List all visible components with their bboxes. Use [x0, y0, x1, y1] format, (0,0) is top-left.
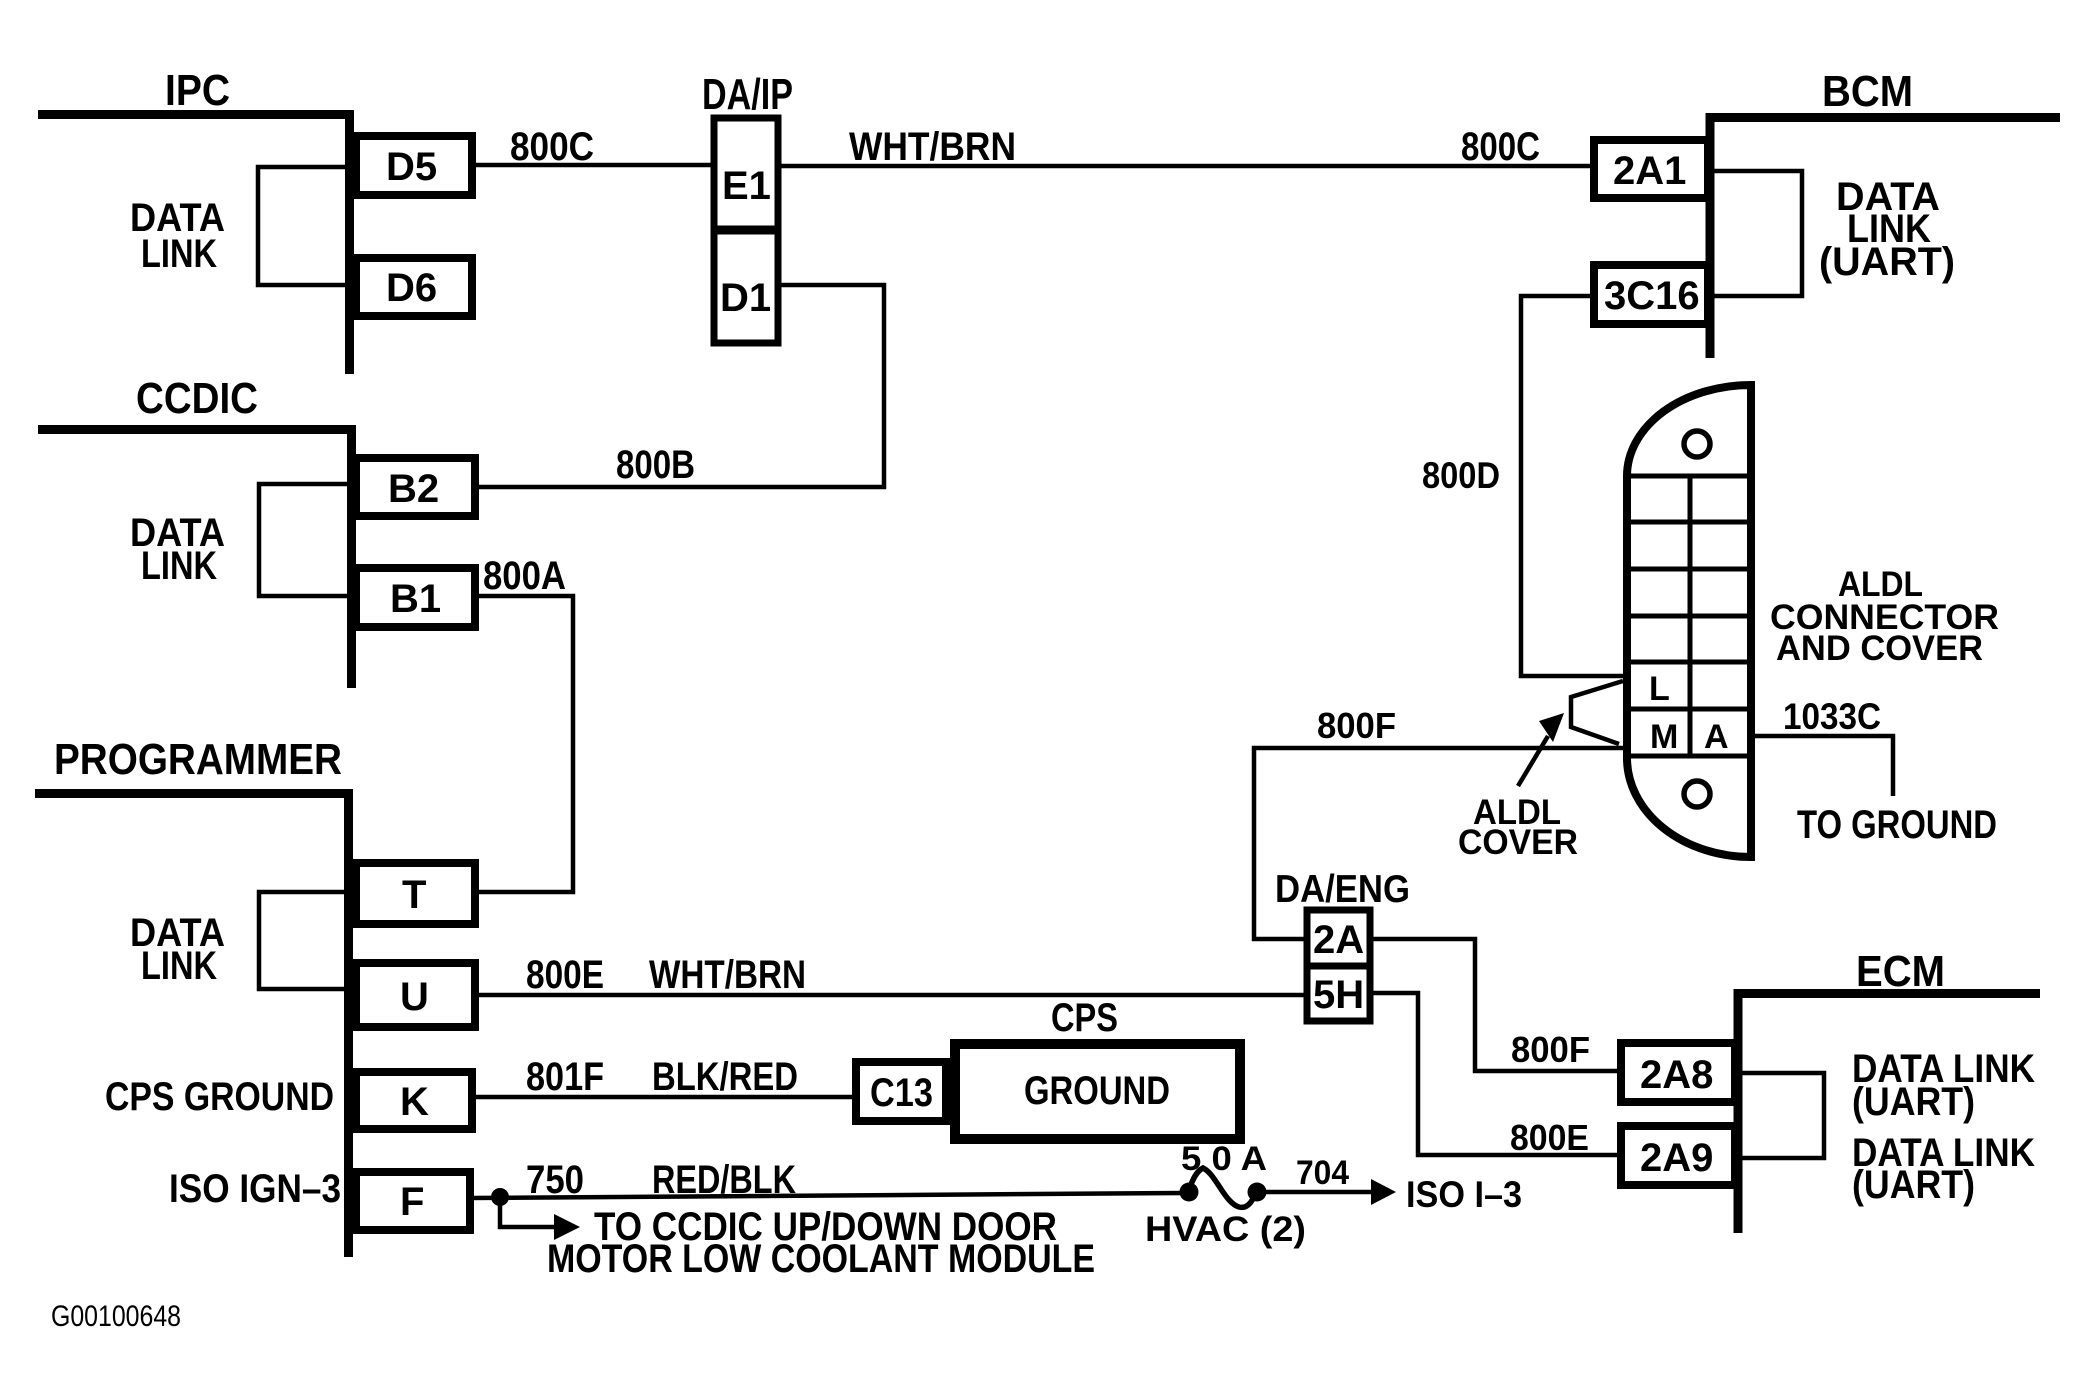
svg-text:CPS: CPS [1051, 996, 1118, 1040]
bracket IPC data link [258, 167, 349, 285]
label DATA LINK (IPC) [130, 196, 225, 276]
svg-text:800F: 800F [1317, 705, 1396, 746]
svg-text:750: 750 [526, 1158, 584, 1202]
ALDL pin hole bottom [1684, 781, 1710, 807]
svg-text:DA/ENG: DA/ENG [1275, 868, 1410, 911]
svg-text:T: T [402, 873, 426, 917]
arrow to ALDL cover [1518, 713, 1564, 786]
label WHT/BRN top [849, 125, 1016, 169]
label 800C left [510, 125, 594, 169]
terminal B2 [356, 458, 475, 516]
ALDL connector outline [1627, 385, 1751, 857]
wire 801F K to C13 [472, 1095, 852, 1100]
label TO GROUND [1797, 803, 1997, 847]
module ECM outline [1738, 989, 2040, 1233]
terminal K [356, 1072, 472, 1129]
svg-text:800C: 800C [1461, 125, 1540, 169]
label DATA LINK (PROGRAMMER) [130, 911, 225, 988]
module PROGRAMMER label [54, 735, 342, 784]
label 1033C [1783, 696, 1881, 737]
label 800D [1422, 455, 1500, 496]
svg-text:800D: 800D [1422, 455, 1500, 496]
svg-text:C13: C13 [870, 1071, 933, 1115]
svg-text:704: 704 [1296, 1154, 1349, 1192]
label TO CCDIC UP/DOWN DOOR MOTOR LOW COOLANT MODULE [547, 1205, 1095, 1281]
svg-text:LINK: LINK [141, 944, 217, 988]
svg-text:K: K [400, 1080, 429, 1124]
label ISO I-3 [1406, 1174, 1522, 1215]
svg-text:D5: D5 [386, 145, 437, 189]
terminal B1 [356, 568, 475, 627]
svg-text:CPS GROUND: CPS GROUND [105, 1075, 334, 1119]
module IPC outline [38, 110, 350, 374]
connector DA/IP label [702, 70, 793, 119]
svg-text:2A1: 2A1 [1613, 149, 1686, 193]
terminal F [356, 1172, 470, 1230]
svg-text:MOTOR LOW COOLANT MODULE: MOTOR LOW COOLANT MODULE [547, 1237, 1095, 1281]
svg-text:E1: E1 [722, 164, 771, 208]
label 5.0 A [1181, 1140, 1267, 1178]
ALDL pin hole top [1684, 431, 1710, 457]
terminal D5 [356, 136, 472, 195]
svg-text:F: F [400, 1180, 424, 1224]
svg-text:5H: 5H [1313, 973, 1364, 1017]
svg-text:PROGRAMMER: PROGRAMMER [54, 735, 342, 784]
label DATA LINK (CCDIC) [130, 511, 225, 588]
svg-text:B2: B2 [388, 467, 439, 511]
ALDL pin L [1649, 670, 1670, 708]
module ECM label [1856, 947, 1945, 996]
svg-text:(UART): (UART) [1819, 240, 1955, 284]
svg-text:800E: 800E [526, 953, 604, 997]
bracket BCM data link [1711, 171, 1802, 296]
label 800A [483, 554, 566, 598]
wire 800A B1 to T [475, 596, 573, 892]
terminal C13 [856, 1062, 946, 1121]
label DATA LINK (UART) ECM 2 [1852, 1131, 2035, 1207]
svg-text:HVAC (2): HVAC (2) [1145, 1210, 1306, 1249]
wire 800F ALDL M to 2A [1254, 748, 1627, 939]
label 800C right [1461, 125, 1540, 169]
svg-text:LINK: LINK [141, 544, 217, 588]
terminal 2A1 [1594, 140, 1708, 198]
label 800F upper [1317, 705, 1396, 746]
svg-text:(UART): (UART) [1852, 1163, 1975, 1207]
label HVAC (2) [1145, 1210, 1306, 1249]
terminal 2A [1307, 910, 1370, 966]
label 800F lower [1511, 1029, 1590, 1070]
label 704 [1296, 1154, 1349, 1192]
svg-text:G00100648: G00100648 [51, 1300, 181, 1333]
svg-text:2A9: 2A9 [1640, 1136, 1713, 1180]
svg-text:ISO IGN–3: ISO IGN–3 [169, 1167, 341, 1211]
svg-text:WHT/BRN: WHT/BRN [649, 953, 806, 997]
svg-text:A: A [1704, 718, 1729, 756]
svg-text:800C: 800C [510, 125, 594, 169]
terminal 2A9 [1621, 1126, 1735, 1185]
wire 750 F to fuse [470, 1193, 1185, 1198]
module CCDIC outline [38, 425, 352, 688]
svg-text:M: M [1650, 718, 1678, 756]
svg-text:AND COVER: AND COVER [1776, 629, 1983, 668]
label 801F BLK/RED [526, 1055, 798, 1099]
svg-text:TO GROUND: TO GROUND [1797, 803, 1997, 847]
module IPC label [165, 66, 230, 115]
svg-text:800A: 800A [483, 554, 566, 598]
svg-text:1033C: 1033C [1783, 696, 1881, 737]
wire 800E 5H to 2A9 [1370, 993, 1621, 1155]
label figure id G00100648 [51, 1300, 181, 1333]
label ISO IGN-3 [169, 1167, 341, 1211]
svg-text:800B: 800B [616, 443, 695, 487]
ALDL pin M [1650, 718, 1678, 756]
svg-text:ISO I–3: ISO I–3 [1406, 1174, 1522, 1215]
wire 1033C ALDL A to ground [1751, 736, 1893, 796]
label ALDL COVER [1458, 793, 1578, 862]
module PROGRAMMER outline [35, 789, 349, 1257]
label 800E WHT/BRN [526, 953, 806, 997]
wire 800B D1 to B2 [475, 285, 884, 487]
terminal D6 [356, 258, 472, 316]
svg-text:3C16: 3C16 [1604, 274, 1700, 318]
ALDL connector grid [1627, 476, 1751, 756]
module CCDIC label [136, 374, 258, 423]
svg-text:GROUND: GROUND [1024, 1069, 1170, 1113]
svg-text:2A8: 2A8 [1640, 1053, 1713, 1097]
svg-text:U: U [400, 975, 429, 1019]
svg-text:CCDIC: CCDIC [136, 374, 258, 423]
wire 704 fuse to ISO I-3 [1257, 1179, 1396, 1205]
label DATA LINK (UART) BCM [1819, 175, 1955, 284]
junction node on wire 750 [491, 1188, 509, 1206]
component CPS GROUND box [955, 1044, 1240, 1139]
ALDL pin A [1704, 718, 1729, 756]
terminal 2A8 [1621, 1043, 1735, 1102]
label CPS [1051, 996, 1118, 1040]
svg-text:ECM: ECM [1856, 947, 1945, 996]
label 800E lower [1510, 1117, 1589, 1158]
wire 800F 2A to 2A8 [1370, 939, 1621, 1071]
fuse HVAC 5.0A [1180, 1168, 1267, 1207]
svg-text:2A: 2A [1313, 918, 1364, 962]
module BCM outline [1710, 113, 2060, 358]
terminal D1 [714, 229, 778, 343]
bracket CCDIC data link [259, 484, 351, 596]
svg-text:800F: 800F [1511, 1029, 1590, 1070]
bracket PROGRAMMER data link [259, 892, 348, 989]
svg-text:IPC: IPC [165, 66, 230, 115]
svg-text:BCM: BCM [1822, 67, 1913, 116]
wire 800E U to 5H [475, 993, 1307, 998]
connector DA/ENG label [1275, 868, 1410, 911]
bracket ECM data link [1739, 1073, 1824, 1158]
svg-text:800E: 800E [1510, 1117, 1589, 1158]
terminal 5H [1307, 966, 1370, 1021]
label 800B [616, 443, 695, 487]
terminal 3C16 [1594, 265, 1708, 324]
label 750 RED/BLK [526, 1158, 796, 1202]
wire 800D 3C16 to ALDL L [1521, 296, 1627, 676]
svg-text:WHT/BRN: WHT/BRN [849, 125, 1016, 169]
svg-text:L: L [1649, 670, 1670, 708]
svg-text:COVER: COVER [1458, 823, 1578, 862]
label ALDL CONNECTOR AND COVER [1770, 565, 1999, 668]
svg-text:5 0 A: 5 0 A [1181, 1140, 1267, 1178]
svg-text:(UART): (UART) [1852, 1080, 1975, 1124]
svg-text:D6: D6 [386, 266, 437, 310]
wire WHT/BRN E1 to 2A1 [778, 164, 1594, 169]
svg-text:D1: D1 [720, 276, 771, 320]
svg-text:801F: 801F [526, 1055, 604, 1099]
ALDL cover flap [1571, 681, 1623, 744]
module BCM label [1822, 67, 1913, 116]
svg-text:BLK/RED: BLK/RED [652, 1055, 798, 1099]
svg-text:LINK: LINK [141, 232, 217, 276]
terminal T [356, 863, 475, 924]
wire 800C D5 to E1 [472, 163, 714, 168]
svg-text:B1: B1 [390, 577, 441, 621]
label CPS GROUND [105, 1075, 334, 1119]
terminal U [356, 963, 475, 1027]
svg-text:RED/BLK: RED/BLK [652, 1158, 796, 1202]
svg-text:DA/IP: DA/IP [702, 70, 793, 119]
wire branch to CCDIC door motor [500, 1197, 580, 1240]
label DATA LINK (UART) ECM 1 [1852, 1047, 2035, 1124]
terminal E1 [714, 118, 778, 231]
